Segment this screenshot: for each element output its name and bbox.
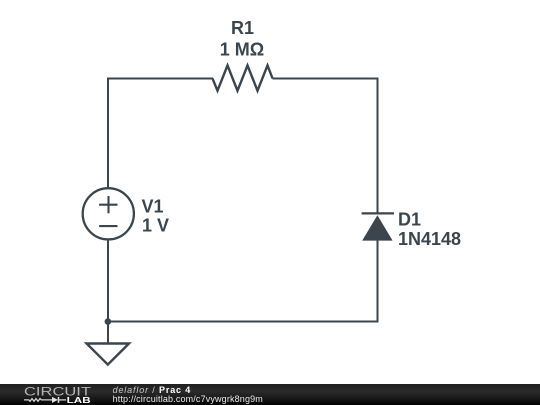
voltage source V1 — [83, 188, 134, 239]
ground — [87, 322, 129, 365]
diode D1 — [362, 213, 394, 240]
svg-text:V1: V1 — [142, 197, 164, 217]
svg-text:D1: D1 — [398, 210, 421, 230]
wire top-right segment — [273, 78, 379, 80]
svg-text:R1: R1 — [231, 18, 254, 38]
footer credits text — [113, 386, 263, 405]
junction node dot — [105, 318, 112, 325]
wire bottom segment — [108, 321, 379, 323]
svg-text:1 V: 1 V — [142, 216, 169, 236]
wire right vertical upper — [377, 78, 379, 214]
CircuitLab logo — [0, 384, 100, 405]
svg-text:LAB: LAB — [67, 396, 92, 405]
wire left vertical upper — [107, 78, 109, 189]
svg-text:1N4148: 1N4148 — [398, 229, 461, 249]
logo wire with resistor — [24, 399, 52, 402]
svg-text:1 MΩ: 1 MΩ — [220, 40, 264, 60]
wire right vertical lower — [377, 240, 379, 321]
wire top-left segment — [108, 78, 213, 80]
footer bar — [0, 384, 540, 405]
resistor R1 — [213, 65, 273, 90]
logo diode — [52, 397, 58, 403]
wire left vertical lower — [107, 239, 109, 322]
